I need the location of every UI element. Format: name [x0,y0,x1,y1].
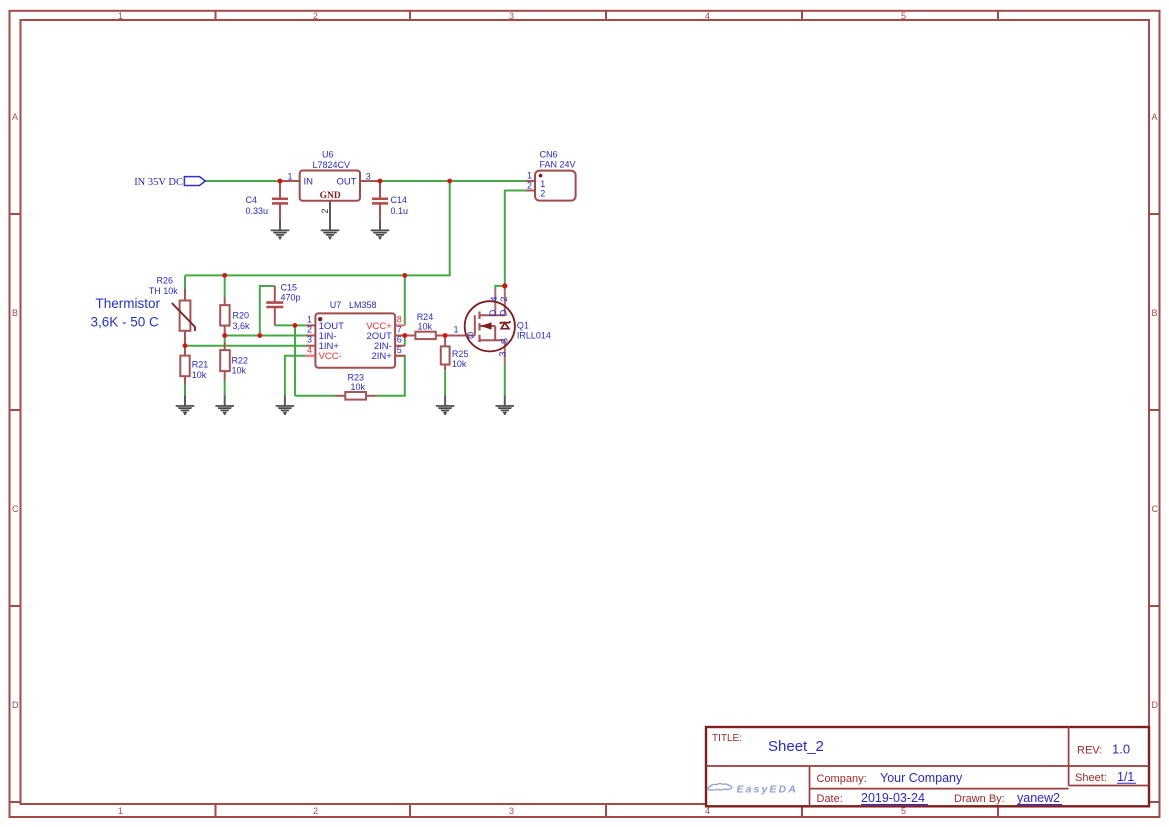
resistor R22 body [220,350,230,371]
svg-text:S: S [500,338,511,344]
svg-text:CN6: CN6 [540,150,558,160]
svg-text:A: A [1152,112,1158,122]
pin1 marker U7 [318,317,322,321]
TITLE BLOCK [706,727,1149,806]
svg-text:10k: 10k [452,359,467,369]
svg-text:U7: U7 [330,300,342,310]
wire 24V rail down-left [185,181,450,275]
resistor R21 leads [184,346,186,356]
svg-text:R26: R26 [157,275,174,285]
svg-text:R20: R20 [233,311,250,321]
wire Q1 drain link [495,286,505,289]
wire 1OUT feedback down [294,325,296,395]
svg-text:Sheet:: Sheet: [1075,772,1107,784]
node junction 24V rail [447,179,452,184]
VCC pin stubs [306,325,405,355]
svg-text:10k: 10k [192,370,207,380]
resistor R21 body [180,356,189,377]
svg-text:3: 3 [509,806,514,816]
ground VCC- [276,396,295,415]
capacitor C15 plates [266,303,283,307]
node junction R20 top [222,273,227,278]
svg-text:10k: 10k [351,382,366,392]
ground R21 [176,396,195,415]
svg-text:1: 1 [454,324,459,334]
svg-text:G: G [467,331,474,342]
resistor R20 body [220,305,229,326]
resistor R24 body [415,332,435,339]
wire U6 out to CN6 pin1 [380,180,526,182]
pin U6.1 [280,180,300,182]
CN6 pin numbers outside [527,171,532,191]
channel dashed [478,312,480,343]
pin1 marker CN6 [539,174,543,178]
pin CN6.2 [526,190,535,192]
svg-text:C15: C15 [281,283,298,293]
svg-text:D: D [12,700,19,710]
node junction R20/R22 [222,333,227,338]
svg-text:1/1: 1/1 [1117,770,1134,784]
capacitor C4 plates [272,199,288,204]
ground Q1 source [496,396,515,415]
arrow [480,322,491,329]
regulator U6 body [300,171,360,201]
U6 pin names [304,176,357,187]
connector CN6 body [535,171,576,201]
svg-text:8: 8 [397,314,402,324]
pin CN6.1 [526,180,535,182]
netflag IN 35V DC [184,177,205,186]
svg-text:VCC+: VCC+ [366,321,392,332]
U7 pin numbers [307,314,402,354]
svg-text:Your Company: Your Company [880,771,963,785]
transistor Q1 [465,301,515,351]
ground C4 [271,220,290,239]
pin U7.4 VCC- stub [306,355,316,357]
pin U6.3 [360,180,380,182]
svg-text:2: 2 [320,208,330,213]
svg-text:C4: C4 [246,195,258,205]
node junction 1OUT [293,323,298,328]
svg-text:2: 2 [527,180,532,190]
wire Q1 source to ground [504,365,506,397]
svg-text:R22: R22 [232,356,249,366]
resistor R23 leads [336,395,346,397]
svg-text:5: 5 [397,345,402,355]
node junction R24/R25 [443,333,448,338]
svg-text:6: 6 [397,335,402,345]
svg-text:R21: R21 [192,359,209,369]
svg-text:Company:: Company: [817,773,867,785]
wire R23 right to 2IN+ [376,356,405,396]
resistor R25 leads [444,336,446,347]
thermistor R26 diagonal [172,303,195,331]
svg-text:R25: R25 [452,349,469,359]
svg-text:3,6K - 50 C: 3,6K - 50 C [91,314,160,329]
svg-text:7: 7 [397,325,402,335]
resistor R22 leads [224,342,226,350]
node junction VCC+ drop [402,273,407,278]
capacitor C14 leads [379,181,381,198]
U6 pin2 gray lead [329,201,331,220]
node junction R26/R21 [183,343,188,348]
wire R26 top lead green [184,275,186,289]
svg-text:5: 5 [901,11,906,21]
ground C14 [371,220,390,239]
svg-text:OUT: OUT [336,176,356,187]
svg-text:C: C [1152,504,1159,514]
wire R22 bottom [224,336,226,343]
wire node B to 1IN- [225,335,306,337]
wire CN6 pin2 down to Q1 drain node [505,191,526,285]
wire R25 bottom [444,370,446,396]
node junction C4/U6.1 [278,179,283,184]
thermistor R26 leads [184,289,186,301]
svg-text:FAN 24V: FAN 24V [540,160,576,170]
resistor R23 body [345,392,366,400]
svg-text:Q1: Q1 [517,321,529,331]
EasyEDA logo [708,783,798,795]
capacitor C14 plates [372,199,388,204]
body diode [500,321,511,329]
svg-text:IRLL014: IRLL014 [517,331,551,341]
wire VCC- to ground [285,356,306,396]
svg-text:10k: 10k [232,366,247,376]
pin U7.8 VCC+ stub [395,324,405,326]
capacitor C15 leads [274,286,276,302]
svg-text:1: 1 [307,314,312,324]
svg-text:C14: C14 [391,195,408,205]
svg-text:B: B [1152,308,1158,318]
pin Q1 drain 4 [494,289,496,316]
capacitor C4 leads [279,181,281,198]
ground U6 pin2 [321,220,340,239]
svg-text:IN 35V DC: IN 35V DC [134,177,183,188]
U7 left pin stubs [306,324,316,326]
wire VCC+ drop to U7 pin8 [404,275,406,325]
wire node A to 1IN+ [185,345,306,347]
resistor R20 leads [224,297,226,305]
svg-text:R24: R24 [417,312,434,322]
svg-text:0.33u: 0.33u [246,206,269,216]
wire R20 top lead green [224,275,226,297]
svg-text:3: 3 [497,352,508,357]
svg-text:2: 2 [313,806,318,816]
svg-text:Date:: Date: [817,793,843,805]
wire C15 bottom to 1OUT [275,324,306,326]
svg-text:1.0: 1.0 [1112,742,1130,757]
svg-text:2019-03-24: 2019-03-24 [861,791,925,805]
svg-text:Sheet_2: Sheet_2 [768,738,824,755]
node junction C15 [257,333,262,338]
svg-text:10k: 10k [418,322,433,332]
svg-text:1: 1 [118,806,123,816]
ground R22 [215,396,234,415]
wire 2OUT to 2IN- link [404,336,406,346]
svg-text:D: D [1152,700,1159,710]
pin Q1 source 3 [504,340,506,364]
svg-text:2IN+: 2IN+ [371,351,392,362]
svg-text:REV:: REV: [1077,745,1102,757]
U7 right pin stubs [395,335,405,337]
wire to R23 left [295,395,336,397]
op-amp U7 body [315,313,395,367]
U7 pin names [319,321,393,362]
svg-text:Drawn By:: Drawn By: [954,793,1005,805]
svg-text:4: 4 [307,345,312,355]
svg-text:3: 3 [307,335,312,345]
CN6 pin names inside [540,179,545,199]
thermistor R26 body [180,301,191,331]
junction dots [183,179,508,349]
wire IN35V flag to U6 pin1 [205,180,280,182]
svg-text:0.1u: 0.1u [391,206,409,216]
wire C15 left branch [260,286,275,336]
wire R21 bottom [184,385,186,397]
svg-text:LM358: LM358 [349,300,377,310]
ground R25 [436,396,455,415]
node junction U6.3/C14 [378,179,383,184]
svg-text:470p: 470p [281,293,301,303]
svg-text:GND: GND [320,191,341,201]
svg-text:3: 3 [509,11,514,21]
svg-text:4: 4 [705,11,710,21]
svg-text:1: 1 [118,11,123,21]
svg-text:EasyEDA: EasyEDA [737,783,798,795]
label Thermistor [91,296,161,329]
svg-text:TH 10k: TH 10k [149,286,179,296]
svg-text:2: 2 [307,325,312,335]
svg-text:L7824CV: L7824CV [313,160,351,170]
svg-text:D: D [498,310,509,317]
svg-text:3,6k: 3,6k [233,321,251,331]
svg-text:2: 2 [540,188,545,198]
svg-text:1: 1 [288,172,293,182]
U6 pin numbers [288,172,371,182]
svg-text:2: 2 [313,11,318,21]
svg-text:1: 1 [540,179,545,189]
labels blue [149,150,576,392]
svg-text:yanew2: yanew2 [1017,791,1060,805]
resistor R24 leads [405,335,416,337]
svg-text:C: C [12,504,19,514]
wire gate [445,335,466,337]
svg-text:A: A [12,112,18,122]
svg-text:1: 1 [527,171,532,181]
pin Q1 drain 2 [504,286,506,315]
svg-text:IN: IN [304,176,314,187]
Q1 rotated pin labels [489,297,510,357]
svg-text:VCC-: VCC- [319,351,342,362]
svg-text:Thermistor: Thermistor [96,296,161,311]
svg-text:3: 3 [366,172,371,182]
resistor R25 body [441,346,450,364]
svg-text:TITLE:: TITLE: [712,733,742,744]
node junction 2OUT [402,333,407,338]
svg-text:B: B [12,308,18,318]
svg-text:U6: U6 [322,150,334,160]
node junction drain [502,283,507,288]
svg-text:2: 2 [499,297,510,302]
